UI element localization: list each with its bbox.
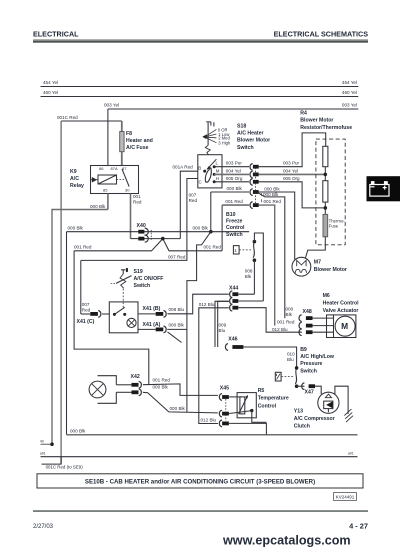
svg-text:Pressure: Pressure [300,361,322,367]
harness connector pair 2 [250,171,253,178]
wire X47 to Y13 [315,386,321,394]
relay K9 diode arrow [92,177,97,183]
wire lamp to X42 [116,384,131,386]
R5 wiper arrow [239,396,248,414]
svg-text:460 Yel: 460 Yel [43,90,58,95]
svg-text:X41 (B): X41 (B) [143,306,161,312]
KV number box [334,493,357,501]
wire 005 Org H [214,181,249,183]
wire 001 Red to X48 [259,205,275,326]
wire X44 pin2 twin riser [218,301,229,347]
connector X48 pin2 [299,322,302,329]
wire 003 Yel drop to relay 86 [107,109,109,166]
pin ticks [261,193,263,196]
S18 spring squiggle [205,145,210,154]
svg-text:A/C ON/OFF: A/C ON/OFF [134,276,164,282]
connector X41 (A) [156,328,164,332]
wire 001 Red connector run [222,204,249,206]
S19 toggle contact [116,276,131,284]
wire S19 B out [138,313,156,315]
connector X42 pin1 [132,383,139,387]
B9 actuator dashes [281,375,294,377]
footer rule [33,510,368,512]
svg-text:012 Blu: 012 Blu [201,417,217,422]
svg-text:008 Blu: 008 Blu [169,307,185,312]
caption box [37,474,363,488]
svg-text:Temperature: Temperature [258,396,289,402]
svg-text:012 Blu: 012 Blu [272,327,288,332]
node R4 tap 1 [324,173,328,177]
wire X48 pins to M6 [313,318,334,332]
connector X48 pin3 [299,329,302,336]
wire 000 Blk bus X40 [67,231,211,233]
svg-text:003 Yel: 003 Yel [104,103,119,108]
svg-text:86: 86 [99,166,104,171]
svg-text:A/C Compressor: A/C Compressor [294,416,335,422]
svg-text:001 Red: 001 Red [74,244,92,249]
svg-text:M: M [216,169,220,174]
wire X44 pin2 left [215,301,229,347]
svg-text:X40: X40 [137,223,146,229]
B9 pressure box [275,372,281,381]
svg-text:000 Blk: 000 Blk [227,186,243,191]
B10 contact [253,242,254,258]
connector X45 pin2 [219,410,222,417]
wire X41C stub [81,313,91,315]
svg-text:004 Yel: 004 Yel [226,168,241,173]
svg-text:Blower Motor: Blower Motor [300,118,333,124]
svg-text:005 Org: 005 Org [226,176,243,181]
svg-text:X47: X47 [305,390,314,396]
Y13 clutch coil [318,392,339,413]
svg-text:40: 40 [40,439,44,443]
wire Y13 to frame ground [335,386,348,414]
svg-text:005 Org: 005 Org [283,176,300,181]
wire 001 Red riser to connector line [221,205,223,251]
svg-text:ELECTRICAL SCHEMATICS: ELECTRICAL SCHEMATICS [274,30,369,39]
wire 000 Blk to M7 [259,192,295,260]
wire 007 Red S18-C [81,179,198,261]
svg-text:000 Blk: 000 Blk [68,225,84,230]
S18 rotary shaft [207,123,209,146]
S19 link dashes [122,289,124,309]
ground hatch [344,409,353,422]
wire X44 pin1 right [238,293,254,295]
relay K9 contact 87-30 [122,169,129,187]
wire R5 wiper to ground [252,411,267,423]
svg-text:A/C: A/C [70,176,79,182]
svg-text:001 Red: 001 Red [204,244,222,249]
svg-text:460 Yel: 460 Yel [342,90,357,95]
relay K9 box [91,166,139,194]
svg-text:M: M [341,321,348,331]
relay K9 coil [98,175,117,184]
svg-text:Red: Red [189,198,198,203]
wire S19 A out [138,328,156,330]
svg-text:S19: S19 [134,269,143,275]
node ground continuation dot [50,442,54,446]
R5 box [237,393,256,418]
wire X45 pin2 to R5 wiper [229,411,252,414]
harness connector pair 5 [250,202,253,209]
svg-text:85: 85 [103,188,108,193]
connector X45 pin1 [219,394,222,401]
lamp E housing [98,376,117,404]
svg-text:000 Blk: 000 Blk [70,428,86,433]
harness connector pair 4 [250,189,253,196]
svg-text:B10: B10 [226,212,236,218]
wire X44 pin1 left 008 Blu riser [168,294,229,314]
wire B9 to X47 [297,385,305,387]
connector X41 (C) [90,312,98,316]
wire 000 Blk S18 run [211,191,249,193]
svg-text:a01: a01 [40,451,46,455]
harness connector pair 3 [250,179,253,186]
wire 000 Blk left riser to bottom bus [66,232,68,435]
svg-text:ELECTRICAL: ELECTRICAL [33,30,79,39]
S19 indicator lamp [127,318,136,327]
svg-text:a01: a01 [348,451,354,455]
connector X44 pin2 [230,298,233,305]
wire riser junction to S18 000 Blk [210,192,212,232]
svg-text:Heater Control: Heater Control [323,301,360,307]
wire 003 Pur L [214,166,249,168]
svg-text:R5: R5 [258,388,265,394]
svg-text:Blk: Blk [286,312,293,317]
wire 000 Blk X41A to riser [167,328,187,330]
svg-text:Red: Red [133,200,142,205]
svg-text:Blu: Blu [219,328,226,333]
harness connector pair 1 [250,164,253,171]
svg-text:001C Red (to SE9): 001C Red (to SE9) [46,464,84,469]
M7 blower motor circle [292,257,311,276]
wire ground continuation tick [41,443,51,445]
svg-text:SE10B - CAB HEATER and/or AIR: SE10B - CAB HEATER and/or AIR CONDITIONI… [85,479,315,486]
svg-text:001A Red: 001A Red [173,165,194,170]
wire S19 feed loop [74,251,149,384]
wire X44 pin3 right to X48 [238,308,302,333]
connector X42 pin2 [132,390,139,394]
svg-text:007 Red: 007 Red [168,254,186,259]
wire resistor1 to node [324,167,326,181]
svg-text:K9: K9 [70,169,77,175]
wire 001A Red S18-B [180,171,198,238]
wire 000 Blk X42 diag [143,392,218,413]
svg-text:Switch: Switch [134,283,151,289]
svg-text:M6: M6 [323,293,330,299]
svg-text:000: 000 [286,307,294,312]
connector X40 gang link [150,230,152,241]
wire X44 pin2 right [238,300,263,302]
node X40 junction [161,237,165,241]
wire 001C Red horizontal [61,120,122,122]
svg-text:R4: R4 [300,111,307,117]
svg-text:Resistor/Thermofuse: Resistor/Thermofuse [300,125,352,131]
S18 actuator arrow [207,159,216,169]
svg-text:003 Pur: 003 Pur [226,161,243,166]
wire resistor2 to node [324,202,326,214]
svg-text:001 Red: 001 Red [264,199,282,204]
svg-text:M7: M7 [314,260,321,266]
svg-text:KV24491: KV24491 [336,494,355,499]
wire X40 pin2 left stub [131,238,139,240]
R4 resistor 2 [323,181,328,202]
svg-text:003 Pur: 003 Pur [283,161,300,166]
battery tab [367,176,400,201]
R4 thermofuse [323,214,328,236]
wire 454 Yel [41,86,359,88]
svg-text:Blower Motor: Blower Motor [237,138,270,144]
svg-text:A/C Fuse: A/C Fuse [126,145,149,151]
svg-text:012 Blu: 012 Blu [199,302,215,307]
S19 switch box [109,302,138,333]
S19 toggle terminals [121,270,125,274]
B9 contact [295,368,296,384]
svg-text:000 Blk: 000 Blk [169,323,185,328]
svg-text:B9: B9 [300,347,307,353]
lamp circle [89,381,106,398]
connector X45 pin3 [219,420,222,427]
M7 motor glyph [297,260,306,266]
wire 000 Blk relay ground run [52,210,108,445]
svg-text:Control: Control [226,225,245,231]
B10 actuator dashes [239,249,251,251]
connector X41 (B) [156,312,164,316]
svg-text:87A: 87A [111,166,118,171]
wire X45 pin3 to ground riser [229,423,266,434]
svg-text:3 High: 3 High [218,141,231,146]
svg-text:009: 009 [219,322,227,327]
svg-text:454 Yel: 454 Yel [342,80,357,85]
svg-text:A/C Heater: A/C Heater [237,131,264,137]
svg-text:S18: S18 [237,124,246,130]
R4 dashed enclosure [316,139,345,245]
svg-text:000 Blk: 000 Blk [193,225,209,230]
svg-text:Y13: Y13 [294,409,303,415]
connector X40 pin 2 [138,237,144,241]
svg-text:Red: Red [82,307,91,312]
svg-text:Switch: Switch [237,145,254,151]
connector X40 pin 1 [138,230,144,234]
R4 resistor 1 [323,146,328,166]
svg-text:1: 1 [234,248,237,253]
wire diag stub [168,332,182,343]
svg-text:Switch: Switch [226,232,243,238]
svg-text:Control: Control [258,403,277,409]
svg-text:30: 30 [125,188,130,193]
S19 inner contact [114,307,124,314]
svg-text:001C Red: 001C Red [57,115,78,120]
S19 spring [120,274,126,288]
svg-text:000 Blk: 000 Blk [90,204,106,209]
R5 resistor [240,397,245,414]
svg-text:2/27/03: 2/27/03 [33,524,54,530]
B10 sensor box [233,246,239,254]
wire 007 Red riser to X41C [80,260,82,314]
svg-text:001 Red: 001 Red [153,378,171,383]
wire relay 30 down to X40 [130,194,132,239]
svg-text:B: B [198,165,201,170]
svg-text:87: 87 [122,166,127,171]
wire 460 Yel [41,96,359,98]
connector X47 [302,383,305,390]
wire X46 to B9 [243,347,296,368]
svg-text:X46: X46 [228,337,237,343]
S18 switch box [198,155,222,188]
svg-text:X45: X45 [220,386,229,392]
S18 rotary wiper fan [205,129,217,142]
svg-text:010: 010 [287,351,295,356]
wire fuse to relay 87 [121,152,123,166]
harness connector gang link [254,168,256,204]
wire 005 Org to R4 [259,182,326,208]
svg-text:Heater and: Heater and [126,138,153,144]
wire X45 pin1 to R5 [229,396,242,398]
svg-text:007: 007 [82,302,90,307]
wire 001 Red X42 to X45 [143,384,218,396]
fuse F8 [120,132,124,152]
svg-text:X44: X44 [229,286,238,292]
connector X44 pin3 [230,304,233,311]
svg-text:H: H [216,176,219,181]
wire R4 output to M7 [305,237,325,258]
wire 004 Yel M [214,173,249,175]
bottom 001C Red line [41,456,358,458]
wire X40 pin to 001A Red stub [138,238,180,240]
svg-text:A/C High/Low: A/C High/Low [300,354,335,360]
svg-text:X41 (C): X41 (C) [77,319,95,325]
wire 001C Red tail to SE9 [42,456,62,464]
svg-text:Blu: Blu [287,357,294,362]
wire 000 Blk branch to X48 [258,193,285,319]
svg-text:000 Blk: 000 Blk [264,186,280,191]
wire 003 Pur to R4 [259,133,326,167]
svg-text:X48: X48 [303,309,312,315]
S18 contact curve [205,168,211,182]
wire X44 pin3 left 012 Blu riser [199,308,229,424]
svg-text:Relay: Relay [70,183,84,189]
svg-text:4 - 27: 4 - 27 [349,522,368,531]
svg-text:Switch: Switch [300,368,317,374]
S18 pin dots [203,170,206,173]
svg-text:000 Blk: 000 Blk [170,406,186,411]
connector X48 pin1 [299,315,302,322]
svg-text:C: C [199,180,202,185]
wire 000 Blk bottom bus [67,434,358,436]
connector X46 [225,344,228,351]
node R4 tap 2 [324,206,328,210]
svg-text:004 Yel: 004 Yel [283,168,298,173]
wire 003 Yel [108,108,358,110]
svg-text:003 Yel: 003 Yel [342,103,357,108]
svg-text:Clutch: Clutch [294,424,310,430]
M6 actuator box [327,315,356,338]
svg-text:Freeze: Freeze [226,219,243,225]
svg-text:Fuse: Fuse [329,224,339,229]
wire 001C Red left riser [60,121,62,464]
svg-text:Blower Motor: Blower Motor [314,267,347,273]
svg-text:www.epcatalogs.com: www.epcatalogs.com [222,534,351,548]
node 000 Blk junction [209,230,213,234]
svg-text:454 Yel: 454 Yel [43,80,58,85]
wire 001 Red bus with hop [74,239,222,251]
wire 008 Blk B10 to X44 [253,260,255,294]
svg-text:008: 008 [245,268,253,273]
svg-text:007: 007 [189,193,197,198]
connector X45 gang link [225,399,227,421]
svg-text:Valve Actuator: Valve Actuator [323,308,359,314]
wire 004 Yel to R4 [259,173,326,175]
wire S19 B internal [125,313,138,315]
svg-text:F8: F8 [126,131,132,137]
wire fuse feed upper [121,121,123,132]
wire 000 Blk jog from junction [187,232,211,412]
M6 motor circle [335,316,355,336]
svg-text:001: 001 [133,194,141,199]
svg-text:000 Blk: 000 Blk [263,192,279,197]
svg-text:Thermo-: Thermo- [329,218,346,223]
S18 rotary detent mark [206,122,214,127]
svg-text:X41 (A): X41 (A) [143,322,161,328]
svg-text:X42: X42 [131,374,140,380]
connector X44 pin1 [230,291,233,298]
svg-text:Blk: Blk [245,274,252,279]
svg-text:000 Blk: 000 Blk [153,384,169,389]
wire relay 85 down [107,194,109,210]
wire B10 hairpin [254,233,263,301]
svg-text:001 Red: 001 Red [225,199,243,204]
node R5 wiper [250,409,253,412]
svg-text:001 Red: 001 Red [277,320,295,325]
